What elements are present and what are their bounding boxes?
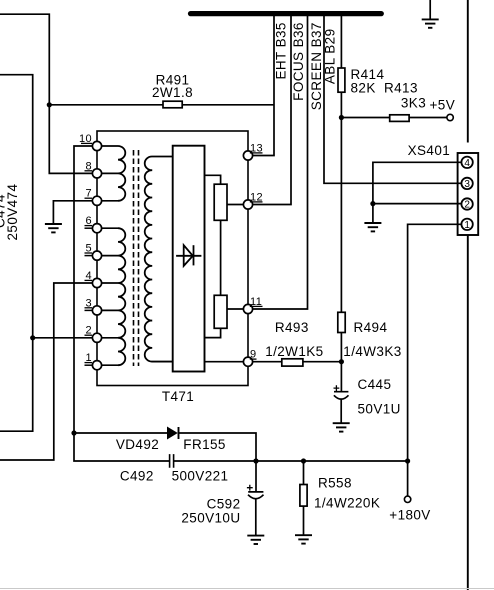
svg-text:250V10U: 250V10U — [181, 510, 240, 525]
svg-text:11: 11 — [250, 296, 262, 308]
svg-text:3: 3 — [85, 297, 92, 309]
capacitor C592 plates — [248, 492, 264, 499]
pin 8 underline — [85, 170, 93, 172]
junction dot R493 R494 C445 — [339, 359, 344, 364]
capacitor C445 plus mark — [334, 385, 340, 391]
svg-text:1: 1 — [464, 220, 470, 231]
pin 3 — [92, 306, 101, 315]
wire C492 row to +180V junction — [174, 460, 408, 462]
capacitor C592 top lead — [255, 461, 257, 492]
terminal +5V — [447, 114, 453, 120]
svg-text:FR155: FR155 — [183, 437, 226, 452]
capacitor C445 plates — [334, 392, 349, 399]
capacitor C445 top lead — [340, 362, 342, 392]
junction dot R558 — [301, 458, 306, 463]
svg-text:4: 4 — [464, 158, 470, 169]
svg-text:VD492: VD492 — [116, 437, 159, 452]
wire pin12 inner — [227, 204, 243, 206]
pin 12 underline — [250, 201, 263, 203]
pin 11 underline — [250, 305, 263, 307]
wire ABL net through R414 and R494 — [340, 15, 342, 362]
pin 6 — [92, 224, 101, 233]
wire pin10 net down to VD492 row and C492 row — [74, 146, 170, 461]
wire VD492 row — [74, 432, 168, 434]
junction dot VD492 row — [71, 430, 76, 435]
wire C592 to ground — [255, 499, 257, 536]
wire top-left B+ feed — [0, 14, 93, 173]
wire SCREEN B37 drop to pin11 — [253, 15, 308, 309]
pin 13 underline — [250, 152, 263, 154]
wire right border net — [467, 0, 469, 590]
resistor R413 — [390, 115, 409, 122]
svg-text:ABL B29: ABL B29 — [322, 29, 337, 85]
wire XS401 pin1 down to +180V row — [408, 224, 462, 461]
svg-text:+180V: +180V — [389, 508, 430, 523]
svg-text:500V221: 500V221 — [172, 469, 229, 484]
winding primary upper (pins 10-8-7) — [118, 146, 125, 201]
svg-text:2: 2 — [85, 325, 92, 337]
pin 1 stub — [85, 364, 93, 366]
wire R491 left — [49, 104, 163, 106]
wire +180V terminal stub — [407, 461, 409, 496]
core dashed lines — [134, 150, 139, 366]
pin 12 — [243, 200, 252, 209]
wire XS401 ground stub — [372, 204, 374, 223]
svg-text:C592: C592 — [207, 497, 241, 512]
winding pin stubs — [102, 146, 118, 365]
svg-text:R558: R558 — [318, 475, 352, 490]
svg-text:1/4W220K: 1/4W220K — [314, 495, 380, 510]
pin 8 — [92, 169, 101, 178]
junction dot +180V — [405, 458, 410, 463]
svg-text:7: 7 — [85, 188, 92, 200]
terminal +180V — [404, 496, 410, 502]
svg-text:50V1U: 50V1U — [358, 402, 401, 417]
pin 3 underline — [85, 307, 93, 309]
resistor R493 — [282, 359, 303, 366]
diode inside HV block — [176, 255, 201, 257]
wire VD492 cathode to C492 row junction — [179, 433, 257, 461]
pin 13 — [243, 151, 252, 160]
svg-text:4: 4 — [85, 270, 92, 282]
pin 2 — [92, 333, 101, 342]
pin 10 — [92, 141, 101, 150]
svg-text:10: 10 — [79, 133, 92, 145]
svg-text:5: 5 — [85, 243, 92, 255]
wire pin4 to left edge — [0, 283, 93, 460]
capacitor C492 plates — [170, 454, 174, 468]
pin 3 stub — [85, 309, 93, 311]
svg-text:R413: R413 — [384, 81, 418, 96]
pin 5 — [92, 251, 101, 260]
svg-text:2: 2 — [464, 200, 470, 211]
svg-text:EHT B35: EHT B35 — [273, 22, 288, 79]
wire +5V branch left — [341, 117, 389, 119]
svg-text:+5V: +5V — [430, 98, 456, 113]
wire C445 to ground — [340, 399, 342, 423]
wire pin9 inner segment — [205, 361, 244, 363]
bottom faint border — [0, 588, 494, 590]
divider bottom link — [205, 328, 221, 337]
winding secondary — [145, 156, 173, 361]
junction dot +5V tap — [339, 115, 344, 120]
connector XS401 pin 2 circle — [461, 198, 472, 209]
pin 9 — [243, 357, 252, 366]
svg-text:12: 12 — [250, 191, 263, 203]
wire pin11 inner — [227, 308, 243, 310]
divider top link — [205, 175, 221, 184]
svg-text:9: 9 — [250, 349, 257, 361]
junction dot left module pin2 — [30, 335, 35, 340]
pin 7 — [92, 196, 101, 205]
wire EHT B35 drop to pin13 — [253, 15, 274, 156]
connector XS401 pin 1 circle — [461, 219, 472, 230]
pin 7 underline — [85, 197, 93, 199]
svg-text:3K3: 3K3 — [401, 96, 426, 111]
pin 4 underline — [85, 279, 93, 281]
ground at C445 — [333, 423, 350, 431]
svg-text:R493: R493 — [275, 320, 309, 335]
focus divider resistor upper — [214, 184, 227, 220]
focus divider resistor lower — [214, 295, 227, 328]
connector XS401 pin 3 circle — [461, 178, 472, 189]
junction dot R491 tap — [47, 102, 52, 107]
wire pin2 from left module — [33, 337, 93, 339]
ground at C592 — [247, 536, 264, 544]
pin 4 — [92, 278, 101, 287]
capacitor C592 plus mark — [247, 485, 253, 491]
wire pin7 to ground — [53, 201, 92, 224]
HV block rectangle — [173, 146, 205, 372]
junction dot XS401 pin2/pin4 ground — [370, 201, 375, 206]
pin 1 — [92, 361, 101, 370]
wire R491 right to EHT line — [182, 104, 274, 106]
resistor R558 — [300, 485, 307, 507]
ground at XS401 — [364, 223, 381, 231]
wire ABL B29 drop to XS401 pin3 — [324, 15, 462, 183]
junction dot C592 — [253, 458, 258, 463]
wire pin9 to R493 — [253, 361, 282, 363]
pin 10 underline — [81, 142, 92, 144]
wire R413 to +5V terminal — [409, 117, 447, 119]
svg-text:1/2W1K5: 1/2W1K5 — [265, 344, 323, 359]
pin 6 underline — [85, 225, 93, 227]
svg-text:1: 1 — [85, 352, 92, 364]
pin 5 underline — [85, 252, 93, 254]
wire FOCUS B36 drop to pin12 — [253, 15, 291, 205]
divider middle link — [220, 220, 222, 295]
pin 9 underline — [250, 358, 257, 360]
ground at pin7 — [45, 224, 62, 232]
transformer T471 body — [97, 131, 248, 386]
wire XS401 pin2 from junction — [373, 203, 462, 205]
svg-text:C492: C492 — [120, 469, 154, 484]
ground at R558 — [295, 535, 312, 543]
connector XS401 pin 4 circle — [461, 157, 472, 168]
svg-text:XS401: XS401 — [408, 143, 451, 158]
svg-text:82K: 82K — [351, 81, 376, 96]
diode VD492 — [168, 427, 177, 438]
winding primary lower (pins 6-5-4-3-2-1) — [118, 228, 125, 365]
top bus bar — [191, 11, 382, 16]
svg-text:C445: C445 — [358, 377, 392, 392]
svg-text:13: 13 — [250, 142, 263, 154]
wire XS401 pin4 to junction — [373, 162, 462, 203]
pin 1 underline — [85, 362, 93, 364]
left module box edge — [0, 75, 33, 432]
svg-text:R494: R494 — [354, 320, 388, 335]
pin 2 underline — [85, 334, 93, 336]
pin 6 stub — [85, 227, 93, 229]
svg-text:8: 8 — [85, 160, 92, 172]
resistor R494 — [338, 312, 345, 332]
pin 11 — [243, 304, 252, 313]
ground top-right — [422, 19, 439, 27]
resistor R491 — [163, 101, 182, 108]
pin 5 stub — [85, 255, 93, 257]
svg-text:FOCUS B36: FOCUS B36 — [291, 22, 306, 101]
svg-text:1/4W3K3: 1/4W3K3 — [343, 344, 401, 359]
svg-text:C474: C474 — [0, 194, 8, 228]
svg-text:6: 6 — [85, 215, 92, 227]
resistor R414 — [338, 68, 345, 92]
svg-text:2W1.8: 2W1.8 — [152, 85, 193, 100]
svg-text:T471: T471 — [162, 389, 194, 404]
connector XS401 body — [458, 153, 479, 235]
svg-text:3: 3 — [464, 179, 470, 190]
wire top-right ground stub — [429, 0, 431, 19]
wire R493 to junction — [303, 361, 342, 363]
resistor R558 leads — [303, 461, 305, 535]
